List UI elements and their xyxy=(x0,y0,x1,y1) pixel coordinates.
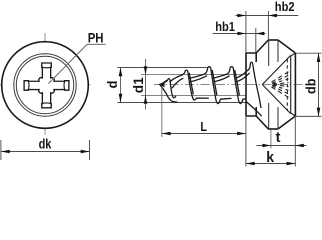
L arrow left xyxy=(162,132,171,136)
svg-text:hb2: hb2 xyxy=(275,0,295,14)
head inner circle 2 (fillet) xyxy=(16,56,73,113)
tip point fill xyxy=(160,81,165,87)
svg-text:PH: PH xyxy=(88,30,104,46)
recess cone xyxy=(262,53,295,116)
phillips wing cap lines xyxy=(28,67,64,103)
recess slot wall lower right xyxy=(277,107,279,129)
flank A2 to sail 2 xyxy=(189,74,204,78)
extension line left face down (L right / k left) xyxy=(245,116,247,167)
sail 1 (ramp crest) xyxy=(182,70,209,100)
extension line t left (recess depth, from bottom flat) xyxy=(270,130,272,149)
centerline horizontal (left view) xyxy=(0,84,93,86)
tip point upper edge xyxy=(160,82,165,84)
cone up left xyxy=(256,40,268,53)
recess slot wall upper left xyxy=(268,40,270,66)
runout curve into head corner xyxy=(247,102,262,116)
hb2 arrow right (outside) xyxy=(268,14,277,17)
svg-text:dk: dk xyxy=(39,135,52,151)
db arrow top xyxy=(317,53,321,62)
svg-text:db: db xyxy=(302,79,318,94)
flank A4 to last sail xyxy=(235,70,248,79)
dimension d xyxy=(119,68,123,103)
extension line d1 top (core) xyxy=(141,74,246,76)
extension line d bottom (crest envelope) xyxy=(117,102,246,104)
recess mouth chamfers xyxy=(291,53,296,116)
db dimension line xyxy=(318,53,320,116)
dk extension line right xyxy=(89,140,91,160)
recess slot wall lower left xyxy=(268,103,270,129)
sail 3 back falling edge xyxy=(235,71,240,96)
svg-text:k: k xyxy=(266,150,275,166)
sail 2 back falling edge xyxy=(212,71,217,96)
sail 1 back falling edge xyxy=(189,73,193,93)
ribbon lower edge 2 xyxy=(191,76,207,82)
hb2 dimension line xyxy=(236,15,299,17)
centerline vertical (left view) xyxy=(44,33,46,137)
extension line db top xyxy=(296,52,322,54)
dk dimension line xyxy=(1,151,90,153)
hb1 dimension line xyxy=(213,33,266,35)
right face xyxy=(294,53,296,116)
k arrow left xyxy=(246,162,255,166)
L dimension line xyxy=(162,133,246,135)
extension line db bottom xyxy=(296,115,322,117)
bottom flat xyxy=(268,128,278,130)
extension line d top (crest envelope) xyxy=(117,67,207,69)
phillips recess PH outline xyxy=(24,63,69,108)
extension line hb2 right xyxy=(267,11,269,40)
recess mouth edge xyxy=(290,56,292,114)
k arrow right xyxy=(287,162,296,166)
sail 0 (tip mini crest) xyxy=(165,79,176,98)
ribbon lower edge 4 xyxy=(237,73,250,82)
sail 4 (at flange) xyxy=(248,62,261,107)
hb1 arrow left (outside) xyxy=(237,32,246,35)
extension line d1 bottom (core) xyxy=(141,95,246,97)
ribbon lower edge 1 xyxy=(172,78,183,87)
chamfer top right xyxy=(278,40,295,53)
extension line head left face (up) xyxy=(245,11,247,53)
hb1 arrow right (outside) xyxy=(256,32,264,35)
bearing face xyxy=(245,53,247,116)
head inner circle (dome edge) xyxy=(14,54,76,116)
screw thread body xyxy=(160,62,262,116)
tip cross flank xyxy=(161,80,167,85)
svg-text:hb1: hb1 xyxy=(215,19,235,34)
svg-text:t: t xyxy=(276,130,281,146)
db arrow bottom xyxy=(317,108,321,117)
dk arrow right xyxy=(81,150,90,154)
ribbon lower edge 3 xyxy=(214,76,229,82)
head outline xyxy=(246,40,296,129)
leader line to PH xyxy=(49,44,106,83)
t arrow right (outside) xyxy=(295,144,304,147)
flange bottom xyxy=(246,107,257,116)
extension line L left (from tip) xyxy=(161,87,163,137)
svg-text:d1: d1 xyxy=(130,77,146,93)
hb2 arrow left (outside) xyxy=(237,14,246,17)
sail 2 xyxy=(204,67,231,104)
recess slot wall upper right xyxy=(277,40,279,62)
chamfer bottom right xyxy=(278,116,295,129)
top flat xyxy=(268,39,278,41)
extension line hb1 right xyxy=(255,28,257,53)
dk arrow left xyxy=(1,150,10,154)
dk extension line left xyxy=(0,140,2,160)
flank A1 to sail 1 xyxy=(170,75,182,81)
svg-text:d: d xyxy=(104,81,120,89)
recess cone upper line xyxy=(262,56,290,85)
head outer circle xyxy=(2,42,89,129)
extension line right face down (t/k right) xyxy=(294,116,296,167)
flange top xyxy=(246,53,257,62)
cone down left xyxy=(256,116,268,129)
flank A3 to sail 3 xyxy=(213,74,227,78)
t dimension line xyxy=(257,145,307,147)
dimension d1 (outside arrows) xyxy=(144,59,148,110)
recess cone lower line xyxy=(262,85,290,114)
tip point lower edge xyxy=(160,85,177,103)
k dimension line xyxy=(246,163,295,165)
svg-text:L: L xyxy=(200,119,207,134)
sail 3 xyxy=(227,67,246,104)
L arrow right xyxy=(237,132,246,136)
centerline screw axis xyxy=(154,84,306,86)
recess hidden lines (dashed) xyxy=(272,59,289,111)
t arrow left (outside) xyxy=(262,144,271,147)
